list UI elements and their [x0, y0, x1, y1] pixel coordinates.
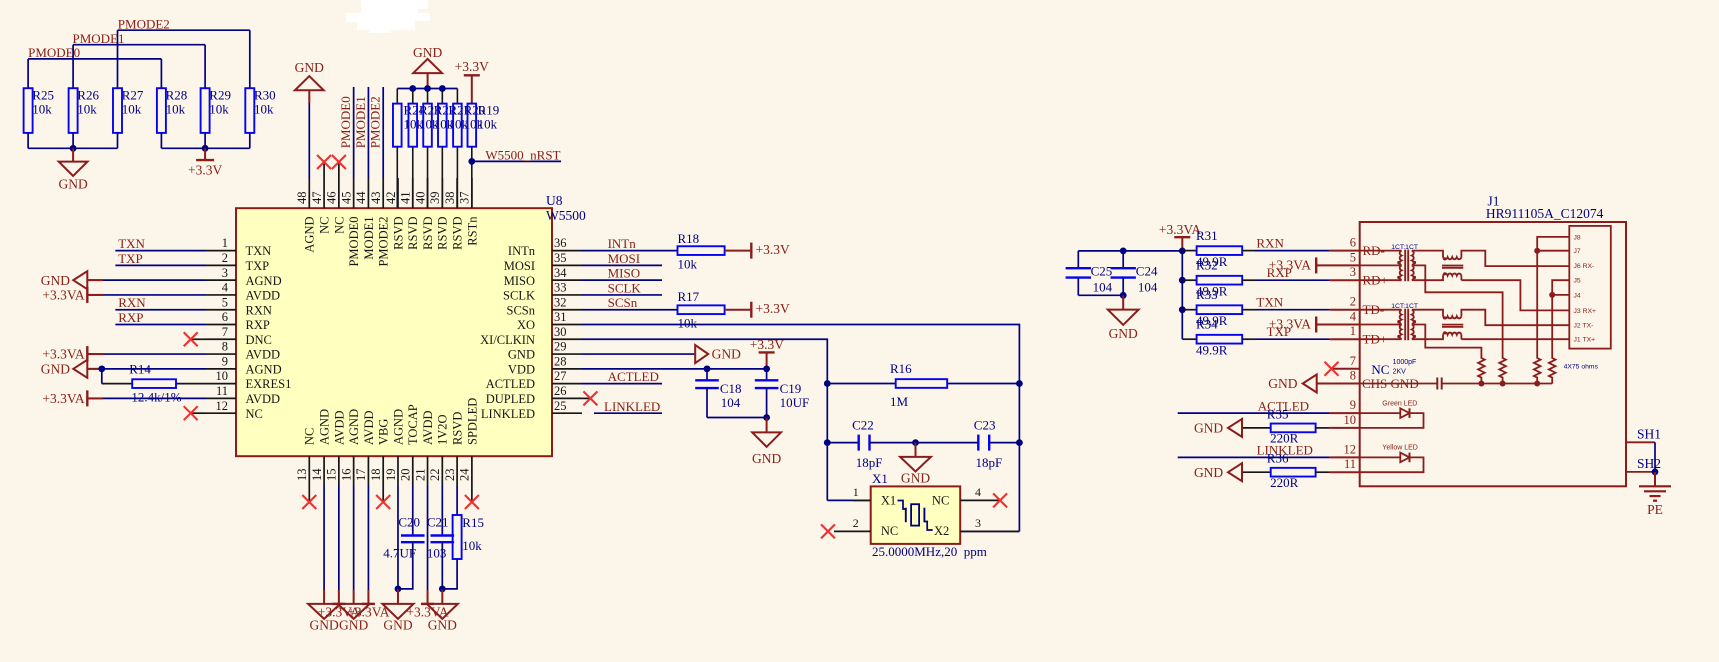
svg-text:10k: 10k — [77, 101, 97, 116]
svg-text:INTn: INTn — [608, 236, 637, 251]
svg-text:NC: NC — [881, 524, 898, 538]
power +3.3VA J1 pin4 — [1269, 317, 1316, 333]
wire primary leads — [1360, 309, 1402, 311]
choke bottom winding — [1443, 333, 1461, 335]
svg-text:+3.3V: +3.3V — [756, 242, 790, 257]
wire secondary bottom to choke — [1412, 335, 1443, 340]
svg-text:4X75 ohms: 4X75 ohms — [1564, 364, 1599, 371]
svg-text:17: 17 — [354, 469, 368, 482]
pin 43 PMODE2 stub — [369, 178, 391, 267]
svg-text:R31: R31 — [1196, 228, 1218, 243]
svg-text:TXN: TXN — [1256, 295, 1283, 310]
svg-text:4: 4 — [222, 281, 229, 295]
resistor R16 — [827, 361, 1019, 409]
svg-text:GND: GND — [508, 348, 535, 362]
svg-text:PMODE2: PMODE2 — [377, 217, 391, 267]
resistor 75 ohm — [1478, 352, 1485, 384]
svg-text:29: 29 — [554, 340, 567, 354]
power +3.3V above R19 — [455, 59, 489, 104]
junction — [1478, 381, 1484, 387]
wire EXRES1 to R14 — [101, 369, 103, 384]
wire LINKLED to J1 — [1178, 456, 1330, 458]
svg-text:RSVD: RSVD — [451, 217, 465, 250]
svg-text:J8: J8 — [1574, 234, 1581, 241]
svg-text:33: 33 — [554, 281, 567, 295]
svg-text:J1 TX+: J1 TX+ — [1574, 337, 1596, 344]
pin 5 RXN stub — [206, 295, 272, 317]
svg-text:R16: R16 — [890, 361, 912, 376]
power +3.3VA pin11 — [42, 390, 206, 406]
svg-text:41: 41 — [399, 192, 413, 205]
net PMODE0 wire — [28, 58, 161, 60]
resistor R19 — [468, 103, 500, 209]
wire 49.9R rail — [1181, 251, 1183, 339]
no-connect J1 pin7 — [1325, 362, 1339, 376]
svg-text:R28: R28 — [166, 87, 188, 102]
pin 10 EXRES1 stub — [206, 369, 291, 391]
wire secondary bottom to choke — [1412, 276, 1443, 281]
svg-text:HR911105A_C12074: HR911105A_C12074 — [1486, 206, 1604, 221]
svg-text:PMODE0: PMODE0 — [347, 217, 361, 267]
svg-text:C20: C20 — [398, 515, 420, 530]
svg-text:C19: C19 — [780, 381, 802, 396]
svg-text:W5500_nRST: W5500_nRST — [485, 148, 560, 163]
svg-text:MISO: MISO — [504, 274, 535, 288]
wire secondary top to choke — [1412, 310, 1443, 317]
wire XI rail to X1 pin1 — [827, 499, 870, 501]
wire R25-R27 commons to ground — [28, 147, 117, 149]
svg-text:RXP: RXP — [118, 310, 143, 325]
svg-text:NC: NC — [303, 428, 317, 445]
power +3.3VA pin4 — [42, 287, 206, 303]
svg-text:25.0000MHz,20 ppm: 25.0000MHz,20 ppm — [872, 544, 987, 559]
svg-text:18pF: 18pF — [976, 455, 1003, 470]
svg-text:37: 37 — [458, 192, 472, 205]
svg-text:PMODE0: PMODE0 — [338, 96, 353, 148]
wire choke top output — [1461, 251, 1569, 267]
ground GND pin48 — [295, 60, 324, 178]
svg-text:GND: GND — [309, 618, 338, 633]
pin 24 SPDLED stub — [458, 398, 480, 486]
no-connect pin18 VBG — [382, 486, 384, 502]
no-connect X1 pin4 — [993, 493, 1007, 507]
svg-text:104: 104 — [1093, 280, 1113, 295]
wire ACTLED to J1 — [1178, 412, 1330, 414]
pin 29 GND stub — [508, 340, 582, 362]
svg-text:GND: GND — [712, 347, 741, 362]
wire RXP — [115, 324, 206, 326]
wire choke bottom output — [1460, 276, 1462, 281]
svg-text:GND: GND — [1194, 421, 1223, 436]
J1 pin 1 stub — [1330, 324, 1360, 339]
wire pin21 AVDD — [427, 486, 429, 590]
pin 4 AVDD stub — [206, 281, 280, 303]
svg-text:U8: U8 — [546, 193, 563, 208]
wire XO rail to X1 pin3 — [960, 530, 1019, 532]
pin 3 AGND stub — [206, 266, 282, 288]
svg-text:AVDD: AVDD — [246, 392, 281, 406]
svg-text:11: 11 — [1344, 457, 1356, 471]
crystal pin1 stub — [853, 499, 871, 501]
resistor R32 — [1182, 258, 1255, 299]
pin 38 RSVD stub — [443, 178, 465, 250]
svg-text:RSVD: RSVD — [436, 217, 450, 250]
J1 pin 9 stub — [1330, 398, 1360, 413]
pin 9 AGND stub — [206, 354, 282, 376]
wire MOSI — [582, 264, 662, 266]
crystal X1 body — [871, 471, 987, 559]
svg-text:R14: R14 — [129, 362, 151, 377]
svg-text:3: 3 — [1350, 265, 1356, 279]
wire VDD pin28 — [582, 368, 767, 370]
svg-text:6: 6 — [222, 310, 228, 324]
svg-text:XO: XO — [517, 318, 535, 332]
svg-text:5: 5 — [1350, 250, 1356, 264]
svg-text:10k: 10k — [478, 117, 498, 132]
svg-text:3: 3 — [222, 266, 228, 280]
choke bottom winding — [1443, 273, 1461, 275]
junction — [202, 145, 209, 152]
svg-text:2: 2 — [853, 516, 859, 530]
pin 37 RSTn stub — [458, 178, 480, 246]
svg-text:2: 2 — [1350, 295, 1356, 309]
junction — [98, 365, 105, 372]
svg-text:36: 36 — [554, 236, 567, 250]
resistor R26 — [69, 87, 100, 148]
capacitor 1000pF 2KV — [1360, 378, 1553, 390]
resistor R33 — [1182, 287, 1255, 328]
wire pin16 AGND — [353, 486, 355, 590]
junction — [1179, 277, 1186, 284]
svg-text:GND: GND — [295, 60, 324, 75]
svg-text:NC: NC — [332, 217, 346, 234]
pin 2 TXP stub — [206, 251, 269, 273]
ground GND above RSVD pull-downs — [413, 45, 442, 89]
svg-text:40: 40 — [413, 192, 427, 205]
svg-text:10k: 10k — [32, 101, 52, 116]
svg-text:18: 18 — [369, 469, 383, 482]
svg-text:DUPLED: DUPLED — [486, 392, 535, 406]
svg-text:34: 34 — [554, 266, 567, 280]
pin 33 SCLK stub — [503, 281, 582, 303]
J1 pin 3 stub — [1330, 265, 1360, 280]
wire RXN — [115, 309, 206, 311]
svg-text:C18: C18 — [720, 381, 742, 396]
resistor R14 — [129, 362, 182, 405]
svg-text:1M: 1M — [890, 394, 909, 409]
svg-text:45: 45 — [339, 192, 353, 205]
pin 17 AVDD stub — [354, 411, 376, 487]
svg-text:7: 7 — [222, 325, 228, 339]
svg-text:GND: GND — [1109, 326, 1138, 341]
white artifact — [346, 0, 430, 33]
svg-text:10k: 10k — [678, 257, 698, 272]
power +3.3V at R17 — [725, 301, 790, 318]
J1 pin 11 stub — [1330, 457, 1360, 472]
svg-text:104: 104 — [1138, 280, 1158, 295]
svg-text:46: 46 — [325, 192, 339, 205]
svg-text:RSVD: RSVD — [421, 217, 435, 250]
net PMODE1 wire — [73, 44, 205, 46]
svg-text:18pF: 18pF — [856, 455, 883, 470]
svg-text:AGND: AGND — [303, 217, 317, 253]
svg-text:R27: R27 — [122, 87, 144, 102]
svg-text:AVDD: AVDD — [362, 411, 376, 446]
svg-text:R26: R26 — [77, 87, 99, 102]
capacitor C25 — [1066, 251, 1113, 295]
transformer primary winding — [1400, 251, 1402, 281]
connector J1 body — [1360, 222, 1626, 486]
svg-text:10k: 10k — [122, 101, 142, 116]
svg-text:39: 39 — [428, 192, 442, 205]
junction — [439, 85, 446, 92]
svg-text:RSVD: RSVD — [391, 217, 405, 250]
power +3.3VA above R31 rail — [1159, 222, 1201, 251]
svg-text:X2: X2 — [934, 524, 949, 538]
resistor 75 ohm — [1499, 352, 1506, 384]
svg-text:31: 31 — [554, 310, 567, 324]
pin 25 LINKLED stub — [481, 399, 582, 421]
wire TXN to J1 — [1255, 309, 1330, 311]
pin 27 ACTLED stub — [486, 369, 582, 391]
J1 pin 6 stub — [1330, 236, 1360, 251]
pin 31 XO stub — [517, 310, 582, 332]
no-connect pin26 DUPLED — [582, 397, 590, 399]
pin 19 AGND stub — [384, 409, 406, 486]
svg-text:+3.3VA: +3.3VA — [42, 288, 84, 303]
svg-text:SPDLED: SPDLED — [465, 398, 479, 445]
junction — [1500, 381, 1506, 387]
junction — [824, 380, 831, 387]
svg-text:4: 4 — [975, 485, 981, 499]
power +3.3V at R18 — [725, 242, 790, 259]
wire TX choke out to J1TX+ — [1461, 338, 1569, 340]
svg-text:PE: PE — [1647, 502, 1663, 517]
ground GND pin16 — [338, 590, 370, 633]
resistor R21 — [438, 103, 470, 209]
capacitor C20 — [383, 486, 424, 589]
svg-text:103: 103 — [427, 546, 447, 561]
pin 46 NC stub — [325, 178, 347, 234]
junction — [1120, 248, 1127, 255]
svg-text:NC: NC — [1371, 362, 1389, 377]
svg-text:+3.3VA: +3.3VA — [1269, 257, 1311, 272]
svg-text:10k: 10k — [254, 101, 274, 116]
pin 20 TOCAP stub — [399, 404, 421, 486]
svg-text:RXN: RXN — [246, 303, 272, 317]
junction — [912, 439, 919, 446]
svg-text:ACTLED: ACTLED — [608, 369, 659, 384]
resistor R36 — [1242, 451, 1330, 490]
svg-text:RXN: RXN — [1256, 236, 1284, 251]
svg-text:1: 1 — [853, 485, 859, 499]
junction — [439, 586, 446, 593]
svg-text:Yellow LED: Yellow LED — [1382, 444, 1418, 451]
pin 26 DUPLED stub — [486, 384, 582, 406]
J1 pin 10 stub — [1330, 413, 1360, 428]
transformer secondary winding — [1412, 310, 1414, 340]
svg-text:30: 30 — [554, 325, 567, 339]
svg-text:VDD: VDD — [508, 362, 535, 376]
capacitor C19 — [755, 369, 809, 418]
capacitor C18 — [695, 369, 741, 418]
wire SCSn — [582, 309, 678, 311]
resistor R30 — [245, 87, 275, 148]
junction — [424, 85, 431, 92]
wire RXN to J1 — [1255, 250, 1330, 252]
J1 pin 4 stub — [1316, 310, 1360, 325]
svg-text:2KV: 2KV — [1393, 369, 1407, 376]
junction — [763, 365, 770, 372]
svg-text:R35: R35 — [1267, 406, 1289, 421]
resistor R27 — [113, 87, 144, 148]
svg-text:10k: 10k — [462, 538, 482, 553]
svg-text:AGND: AGND — [347, 409, 361, 445]
wire pin19 AGND — [397, 486, 399, 589]
svg-text:1V2O: 1V2O — [436, 414, 450, 445]
pin 47 NC stub — [310, 178, 332, 234]
svg-text:SCSn: SCSn — [507, 303, 536, 317]
ground GND below C19 — [752, 418, 781, 466]
wire TX center tap to resistor — [1414, 325, 1482, 353]
svg-text:1: 1 — [1350, 324, 1356, 338]
junction W5500_nRST — [468, 158, 475, 165]
resistor R25 — [24, 87, 54, 148]
svg-text:XI/CLKIN: XI/CLKIN — [480, 333, 535, 347]
wire J4 stub — [1552, 294, 1569, 296]
svg-text:R25: R25 — [32, 87, 54, 102]
svg-text:10UF: 10UF — [780, 395, 810, 410]
svg-text:AVDD: AVDD — [246, 289, 281, 303]
svg-text:MOSI: MOSI — [608, 251, 641, 266]
svg-text:SCSn: SCSn — [608, 295, 638, 310]
power +3.3VA pin21 — [406, 590, 448, 619]
resistor R28 — [157, 87, 187, 148]
svg-text:LINKLED: LINKLED — [604, 399, 660, 414]
capacitor C24 — [1111, 251, 1158, 295]
wire MISO — [582, 279, 662, 281]
svg-text:GND: GND — [339, 618, 368, 633]
pin 21 AVDD stub — [413, 411, 435, 487]
svg-text:NC: NC — [246, 407, 263, 421]
wire TXP — [115, 264, 206, 266]
svg-text:7: 7 — [1350, 354, 1356, 368]
svg-text:44: 44 — [354, 191, 368, 204]
svg-text:13: 13 — [295, 469, 309, 482]
svg-text:Green LED: Green LED — [1382, 400, 1417, 407]
svg-text:J7: J7 — [1574, 248, 1581, 255]
wire RX center tap to resistor — [1414, 265, 1503, 352]
pin 36 INTn stub — [508, 236, 582, 258]
wire SH1 — [1626, 441, 1655, 443]
svg-text:5: 5 — [222, 295, 228, 309]
svg-text:J3 RX+: J3 RX+ — [1574, 308, 1597, 315]
power +3.3V pin28 — [750, 337, 784, 369]
svg-text:GND: GND — [383, 618, 412, 633]
svg-text:GND: GND — [41, 361, 70, 376]
junction — [1179, 248, 1186, 255]
capacitor C23 — [916, 418, 1020, 470]
svg-text:21: 21 — [413, 469, 427, 482]
svg-text:J2 TX-: J2 TX- — [1574, 323, 1594, 330]
wire SCLK — [582, 294, 662, 296]
svg-text:1000pF: 1000pF — [1393, 359, 1417, 366]
junction — [1016, 380, 1023, 387]
svg-text:PMODE2: PMODE2 — [368, 96, 383, 148]
wire XO to crystal — [582, 325, 1019, 532]
svg-text:35: 35 — [554, 251, 567, 265]
svg-text:43: 43 — [369, 192, 383, 205]
svg-text:9: 9 — [222, 354, 228, 368]
junction — [70, 145, 77, 152]
choke top winding — [1443, 257, 1461, 259]
ground GND crystal — [900, 443, 931, 486]
pin 11 AVDD stub — [206, 384, 280, 406]
svg-text:4.7UF: 4.7UF — [383, 546, 416, 561]
svg-text:220R: 220R — [1270, 475, 1299, 490]
svg-text:RXP: RXP — [246, 318, 270, 332]
pin 40 RSVD stub — [413, 178, 435, 250]
svg-text:RSTn: RSTn — [465, 216, 479, 246]
wire secondary top to choke — [1412, 251, 1443, 258]
resistor R29 — [201, 87, 231, 148]
svg-text:11: 11 — [216, 384, 228, 398]
svg-text:AGND: AGND — [317, 409, 331, 445]
resistor R20 — [453, 103, 485, 209]
svg-text:3: 3 — [975, 516, 981, 530]
resistor R23 — [408, 103, 440, 209]
ground GND pin3 — [41, 271, 206, 289]
no-connect pin46 — [338, 162, 340, 178]
svg-text:INTn: INTn — [508, 244, 536, 258]
svg-text:GND: GND — [1194, 465, 1223, 480]
svg-text:+3.3V: +3.3V — [188, 163, 222, 178]
junction — [1534, 381, 1540, 387]
svg-text:26: 26 — [554, 384, 567, 398]
svg-text:C22: C22 — [852, 418, 874, 433]
svg-text:SCLK: SCLK — [503, 289, 535, 303]
resistor R22 — [423, 103, 455, 209]
wire RSVD pull-down common — [397, 88, 457, 90]
svg-text:28: 28 — [554, 354, 567, 368]
J1 inner connector box — [1569, 226, 1611, 349]
wire primary leads — [1360, 250, 1402, 252]
svg-text:AGND: AGND — [246, 274, 282, 288]
svg-text:16: 16 — [339, 469, 353, 482]
junction — [1179, 306, 1186, 313]
svg-text:12: 12 — [216, 399, 229, 413]
net PMODE2 wire — [118, 29, 250, 31]
crystal pin3 stub — [960, 530, 1019, 532]
svg-text:AGND: AGND — [246, 362, 282, 376]
svg-text:C23: C23 — [974, 418, 996, 433]
svg-text:10: 10 — [216, 369, 229, 383]
wire PMODE2 pin43 — [382, 87, 384, 178]
pin 41 RSVD stub — [399, 178, 421, 250]
pin 1 TXN stub — [206, 236, 271, 258]
svg-text:NC: NC — [932, 494, 949, 508]
wire pin14 AGND — [323, 486, 325, 590]
junction — [824, 439, 831, 446]
no-connect pin47 — [323, 162, 325, 178]
svg-text:8: 8 — [1350, 369, 1356, 383]
earth ground PE — [1639, 472, 1671, 517]
svg-text:MISO: MISO — [608, 266, 641, 281]
svg-text:X1: X1 — [881, 494, 896, 508]
pin 28 VDD stub — [508, 354, 582, 376]
svg-text:10k: 10k — [678, 316, 698, 331]
svg-text:6: 6 — [1350, 236, 1356, 250]
